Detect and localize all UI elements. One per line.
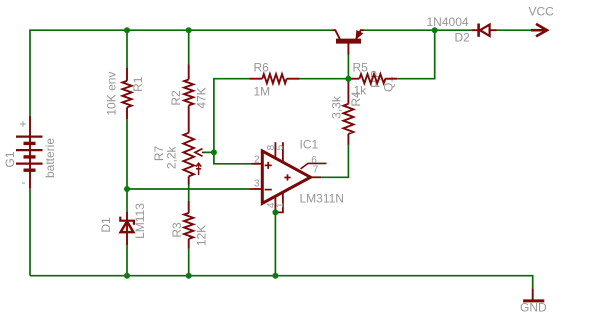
op-amp IC1 LM311N xyxy=(249,142,326,212)
junction at (213.9,152.4) xyxy=(211,149,217,155)
svg-text:1M: 1M xyxy=(254,85,271,99)
VCC supply symbol xyxy=(531,24,547,37)
svg-text:10K env: 10K env xyxy=(105,72,119,116)
- mark pin3 xyxy=(265,189,272,191)
wire: R1 bottom to pin3 node xyxy=(126,119,128,189)
junction at (434.7,30.2) xyxy=(432,27,438,33)
pin 3 lead xyxy=(249,188,263,190)
junction at (127,30.2) xyxy=(124,27,130,33)
svg-text:R1: R1 xyxy=(131,76,145,92)
junction at (275.4,212.4) xyxy=(272,209,278,215)
R7 adjust mark xyxy=(198,164,200,176)
pin 8 lead xyxy=(274,142,276,159)
wire: R2 column top xyxy=(188,30,190,64)
svg-text:1N4004: 1N4004 xyxy=(427,15,469,29)
svg-text:47K: 47K xyxy=(195,87,209,108)
svg-text:G1: G1 xyxy=(3,151,17,167)
svg-text:2: 2 xyxy=(254,154,260,165)
svg-text:-: - xyxy=(22,175,26,189)
wire: battery - to ground bus xyxy=(29,189,31,276)
resistor R6 xyxy=(249,74,299,83)
wire: D2 cathode side to VCC xyxy=(497,29,532,31)
junction at (275.4,275.7) xyxy=(272,273,278,279)
svg-text:R5: R5 xyxy=(353,61,369,75)
wire: IC1 pins 4+1 down to ground bus xyxy=(274,212,276,275)
svg-text:R2: R2 xyxy=(169,90,183,106)
transistor Q1 (PNP) xyxy=(332,30,364,54)
wire: wiper tail to pin 2 of IC1 xyxy=(204,152,252,163)
resistor R4 xyxy=(343,79,353,145)
svg-text:R3: R3 xyxy=(170,222,184,238)
+ mark pin2 xyxy=(265,162,272,169)
pin 2 lead xyxy=(252,163,264,165)
svg-text:R6: R6 xyxy=(254,61,270,75)
svg-text:LM311N: LM311N xyxy=(300,192,344,206)
wire: R6 right to base junction xyxy=(300,78,349,80)
pin 1 lead xyxy=(275,192,283,212)
wire: R4 bottom to IC1 output pin 7 xyxy=(321,145,348,177)
wire: from top-bus junction down and left to R5 xyxy=(397,30,434,78)
svg-text:LM113: LM113 xyxy=(133,203,147,239)
wire: transistor base down to junction xyxy=(347,55,349,79)
resistor R2 xyxy=(184,65,193,133)
wire: R3 bottom to ground bus xyxy=(188,249,190,276)
pin 6 balance lead xyxy=(301,163,327,168)
battery G1 xyxy=(16,116,43,189)
GND symbol xyxy=(523,288,544,301)
wire: D1 bottom to ground bus xyxy=(126,245,128,276)
wire: ground bus to GND symbol xyxy=(30,276,533,289)
pin 7 output lead xyxy=(311,176,322,178)
wire: emitter to 1N4004 anode-side xyxy=(364,29,472,31)
svg-text:3: 3 xyxy=(254,179,260,190)
resistor R3 xyxy=(184,201,193,249)
pin 5 lead xyxy=(282,142,284,163)
svg-text:GND: GND xyxy=(520,301,547,315)
svg-text:2,2k: 2,2k xyxy=(165,145,179,169)
svg-text:batterie: batterie xyxy=(43,138,57,178)
resistor R5 xyxy=(348,74,397,83)
svg-text:1: 1 xyxy=(275,202,286,208)
svg-text:R4: R4 xyxy=(349,91,363,107)
wire: R6 left to wiper riser xyxy=(214,79,250,153)
svg-text:3,3k: 3,3k xyxy=(330,95,344,119)
trimmer R7 xyxy=(183,133,204,185)
svg-text:D1: D1 xyxy=(99,217,113,233)
pin 4 lead xyxy=(274,196,276,212)
junction at (127,189) xyxy=(124,186,130,192)
svg-text:VCC: VCC xyxy=(529,5,555,19)
svg-text:IC1: IC1 xyxy=(300,138,319,152)
+ mark centre xyxy=(284,174,290,180)
wire: pin3 node to IC1 pin 3 xyxy=(127,188,249,190)
junction at (188.7,275.7) xyxy=(186,273,192,279)
junction at (188.7,30.2) xyxy=(186,27,192,33)
wire: R7 bottom to R3 top (crosses pin3 wire) xyxy=(188,185,190,202)
svg-text:+: + xyxy=(20,117,27,131)
R7 wiper arrow xyxy=(195,149,203,157)
junction at (348.4,78.7) xyxy=(345,76,351,82)
wire: R1 column top xyxy=(126,30,128,68)
svg-text:12K: 12K xyxy=(195,225,209,246)
wire: D1 column top xyxy=(126,189,128,212)
resistor R1 xyxy=(122,68,131,119)
svg-text:5: 5 xyxy=(275,144,286,150)
svg-text:7: 7 xyxy=(313,164,319,175)
zener diode D1 LM113 xyxy=(120,212,134,245)
diode D2 1N4004 xyxy=(472,24,497,37)
junction at (127,275.7) xyxy=(124,273,130,279)
svg-text:D2: D2 xyxy=(455,30,471,44)
wire: top bus from battery + to transistor collector xyxy=(30,30,333,116)
